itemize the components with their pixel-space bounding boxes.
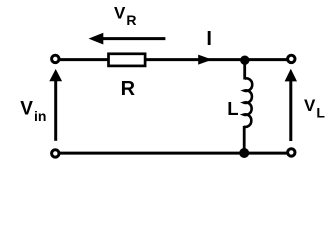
svg-text:in: in (34, 108, 46, 124)
svg-text:R: R (126, 12, 136, 28)
svg-text:V: V (304, 96, 316, 115)
arrow V_L head (285, 69, 297, 82)
terminal top-left (52, 55, 59, 62)
inductor L1 coil (243, 78, 252, 127)
terminal bottom-right (288, 149, 295, 156)
terminal top-right (288, 55, 295, 62)
current arrowhead I on top wire (198, 55, 212, 65)
svg-text:L: L (316, 104, 325, 120)
terminal bottom-left (52, 150, 59, 157)
arrow V_R head (89, 33, 104, 45)
node junction top (240, 56, 249, 65)
svg-text:V: V (114, 4, 126, 23)
wire bottom (left terminal to right terminal) (55, 152, 291, 155)
wire inductor top (junction to coil) (243, 60, 246, 80)
wire top (left terminal to right terminal) (55, 58, 291, 61)
arrow V_R shaft (102, 37, 166, 40)
svg-text:V: V (20, 98, 33, 119)
wire inductor bottom (coil to junction) (243, 126, 246, 153)
arrow V_in shaft (54, 78, 57, 141)
arrow V_L shaft (289, 79, 292, 141)
svg-text:L: L (227, 98, 238, 119)
node junction bottom (239, 148, 249, 158)
arrow V_in head (49, 69, 62, 81)
svg-text:R: R (121, 78, 136, 100)
resistor R1 body (109, 54, 146, 66)
svg-text:I: I (206, 28, 212, 50)
